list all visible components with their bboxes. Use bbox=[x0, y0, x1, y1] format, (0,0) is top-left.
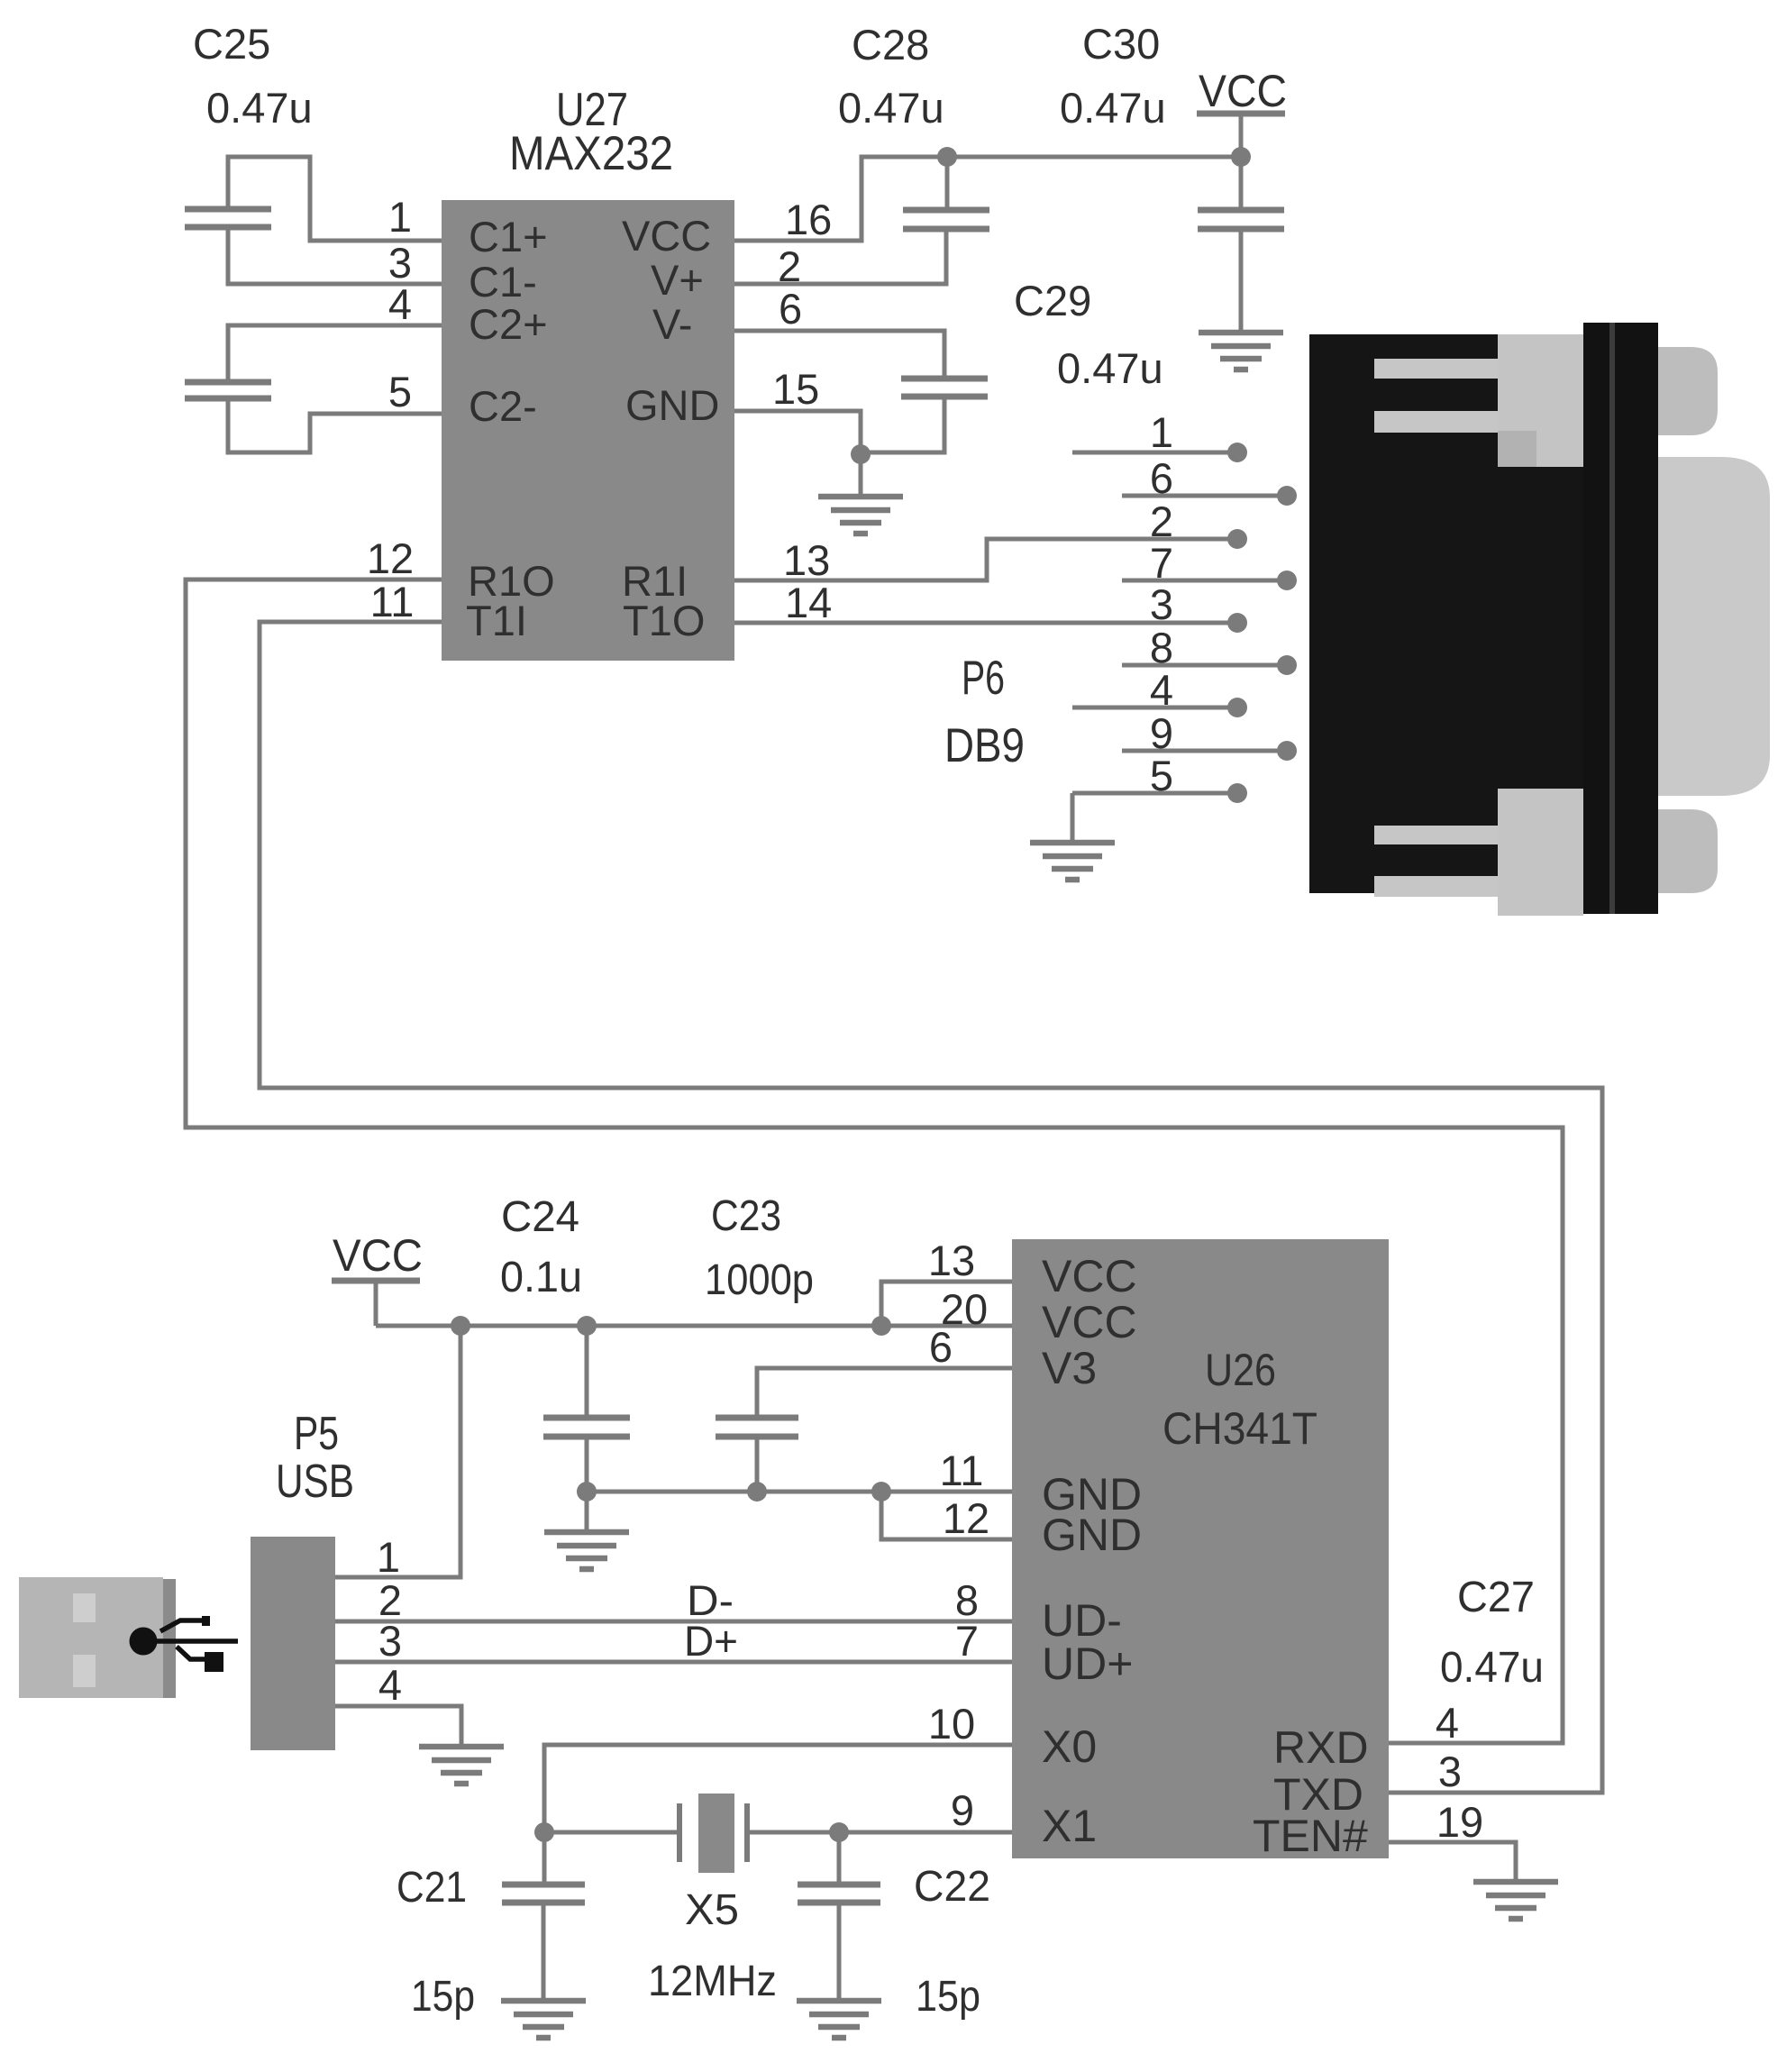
USB trident symbol bbox=[142, 1620, 238, 1659]
wire C28 bottom to U27 pin 2 bbox=[734, 229, 946, 284]
svg-text:15p: 15p bbox=[411, 1973, 475, 2021]
net T1I: U27 pin 11 to U26 TXD pin 3 bbox=[260, 622, 1602, 1793]
svg-text:VCC: VCC bbox=[1042, 1297, 1137, 1347]
svg-text:4: 4 bbox=[1150, 666, 1173, 714]
USB plug icon rear strip bbox=[163, 1579, 176, 1698]
svg-text:13: 13 bbox=[783, 536, 830, 584]
svg-text:T1I: T1I bbox=[466, 597, 527, 644]
IC U27 MAX232 body bbox=[442, 200, 734, 661]
wire rail to C24 top bbox=[585, 1326, 589, 1418]
svg-text:7: 7 bbox=[955, 1617, 979, 1665]
svg-text:C1-: C1- bbox=[469, 258, 537, 306]
svg-text:3: 3 bbox=[1150, 580, 1173, 628]
ground net wire to U26 pins 11 and 12 bbox=[587, 1490, 1012, 1494]
ground symbol under C22 bbox=[797, 2001, 881, 2038]
wire P5 pin 1 to VCC rail bbox=[335, 1326, 460, 1577]
node junction rail-pin13 branch bbox=[871, 1316, 891, 1336]
svg-text:C24: C24 bbox=[501, 1193, 579, 1241]
wire rail branch to U26 pin 13 bbox=[881, 1282, 1012, 1326]
power symbol VCC top bbox=[1197, 111, 1285, 117]
net D-: P5 pin 2 to U26 UD- pin 8 bbox=[335, 1620, 1012, 1624]
svg-text:13: 13 bbox=[928, 1237, 975, 1284]
USB plug icon contact 1 bbox=[73, 1593, 96, 1622]
node junction ground net branch bbox=[871, 1482, 891, 1502]
svg-text:V-: V- bbox=[652, 300, 692, 348]
wire U27 pin 14 to DB9 pin 3 bbox=[734, 621, 1237, 625]
USB plug icon contact 2 bbox=[73, 1655, 96, 1687]
svg-text:C27: C27 bbox=[1457, 1574, 1535, 1621]
svg-text:11: 11 bbox=[370, 578, 415, 625]
wire P5 pin 4 to ground bbox=[335, 1706, 461, 1745]
wire DB9 pin 5 to ground bbox=[1071, 793, 1075, 841]
node DB9 pin 4 solder dot bbox=[1227, 698, 1247, 717]
svg-text:12MHz: 12MHz bbox=[648, 1958, 777, 2005]
svg-text:C25: C25 bbox=[193, 20, 270, 68]
capacitor C28 symbol bbox=[903, 210, 989, 229]
DB9 connector drawing: bottom screw tab bbox=[1658, 809, 1718, 893]
svg-text:0.47u: 0.47u bbox=[838, 84, 944, 132]
svg-text:9: 9 bbox=[1150, 709, 1173, 757]
svg-text:X5: X5 bbox=[685, 1886, 739, 1934]
svg-text:USB: USB bbox=[276, 1456, 354, 1508]
wire U26 pin 10 X0 to crystal node bbox=[544, 1745, 1012, 1832]
ground symbol DB9 pin 5 bbox=[1030, 843, 1115, 880]
node DB9 pin 8 solder dot bbox=[1277, 655, 1297, 675]
wire C30 bottom to ground bbox=[1239, 229, 1244, 333]
node junction C23-ground net bbox=[747, 1482, 767, 1502]
svg-text:V3: V3 bbox=[1042, 1343, 1097, 1393]
wire U27 pin 6 to C29 top bbox=[734, 331, 944, 379]
svg-text:C2-: C2- bbox=[469, 382, 537, 430]
svg-text:X0: X0 bbox=[1042, 1721, 1097, 1772]
DB9 connector drawing: rear flange black strip bbox=[1583, 323, 1658, 914]
capacitor C29 symbol bbox=[901, 379, 988, 397]
wire C24 ground stem bbox=[585, 1492, 589, 1530]
DB9 connector drawing: upper pin bar 1 bbox=[1374, 359, 1500, 379]
ground symbol under C24 bbox=[544, 1532, 629, 1569]
node junction pin15-C29-ground bbox=[851, 444, 871, 464]
svg-text:VCC: VCC bbox=[622, 212, 711, 260]
DB9 connector drawing: top screw tab bbox=[1658, 347, 1718, 435]
wire DB9 pin 9 stub bbox=[1122, 749, 1287, 753]
svg-text:3: 3 bbox=[1438, 1748, 1462, 1795]
svg-text:D+: D+ bbox=[684, 1617, 738, 1665]
wire DB9 pin 1 stub bbox=[1072, 451, 1237, 455]
svg-text:0.47u: 0.47u bbox=[1057, 344, 1163, 392]
node junction X0-C21-crystal bbox=[534, 1822, 554, 1842]
svg-text:2: 2 bbox=[778, 242, 801, 290]
svg-text:VCC: VCC bbox=[1199, 66, 1287, 116]
svg-text:X1: X1 bbox=[1042, 1801, 1097, 1851]
VCC rail to U26 pin 20 bbox=[376, 1324, 1012, 1328]
svg-text:15p: 15p bbox=[916, 1973, 980, 2021]
svg-text:6: 6 bbox=[929, 1323, 953, 1371]
svg-text:C29: C29 bbox=[1014, 277, 1091, 324]
ground symbol P5 pin 4 bbox=[419, 1747, 504, 1784]
wire C23 bottom to ground net bbox=[755, 1437, 760, 1492]
wire crystal left segment bbox=[544, 1830, 679, 1835]
svg-text:T1O: T1O bbox=[623, 597, 705, 644]
DB9 connector drawing: main black shell body bbox=[1309, 334, 1583, 893]
power symbol VCC bottom bbox=[332, 1278, 420, 1284]
svg-text:4: 4 bbox=[378, 1661, 402, 1709]
node junction rail-C28 bbox=[937, 147, 957, 167]
node DB9 pin 3 solder dot bbox=[1227, 613, 1247, 633]
capacitor C30 symbol bbox=[1198, 210, 1284, 229]
svg-text:UD+: UD+ bbox=[1042, 1638, 1133, 1689]
DB9 connector drawing: lower insulator block bbox=[1498, 789, 1583, 916]
svg-text:0.1u: 0.1u bbox=[500, 1254, 582, 1301]
node DB9 pin 9 solder dot bbox=[1277, 741, 1297, 761]
wire DB9 pin 4 stub bbox=[1072, 706, 1237, 710]
node junction rail-C24 bbox=[577, 1316, 597, 1336]
svg-text:14: 14 bbox=[785, 579, 832, 626]
capacitor C24 symbol bbox=[543, 1418, 630, 1437]
net D+: P5 pin 3 to U26 UD+ pin 7 bbox=[335, 1660, 1012, 1665]
wire C25 top to U27 pin 1 bbox=[228, 157, 442, 241]
svg-text:16: 16 bbox=[785, 196, 832, 243]
capacitor C22 symbol bbox=[798, 1885, 880, 1903]
svg-text:RXD: RXD bbox=[1273, 1722, 1369, 1773]
USB plug icon body bbox=[19, 1577, 163, 1698]
wire C29 bottom to pin15 node bbox=[861, 397, 944, 452]
node DB9 pin 7 solder dot bbox=[1277, 570, 1297, 590]
svg-text:6: 6 bbox=[779, 285, 802, 333]
svg-text:C23: C23 bbox=[711, 1192, 781, 1240]
DB9 connector drawing: lower pin bar 1 bbox=[1374, 826, 1500, 844]
capacitor C26 symbol bbox=[185, 382, 271, 398]
node junction rail-C30 bbox=[1231, 147, 1251, 167]
svg-text:V+: V+ bbox=[651, 256, 704, 304]
svg-text:12: 12 bbox=[943, 1494, 989, 1542]
IC U26 CH341T body bbox=[1012, 1239, 1389, 1858]
crystal X5 symbol bbox=[698, 1794, 734, 1873]
wire DB9 pin 8 stub bbox=[1122, 663, 1287, 668]
wire C22 bottom to ground bbox=[837, 1903, 842, 1999]
svg-text:P6: P6 bbox=[962, 652, 1005, 705]
DB9 connector drawing: upper insulator block bbox=[1498, 334, 1583, 467]
svg-text:3: 3 bbox=[378, 1617, 402, 1665]
wire C21 bottom to ground bbox=[542, 1903, 546, 1999]
DB9 connector drawing: D-shell face bbox=[1658, 457, 1770, 796]
wire U27 pin 16 to VCC rail bbox=[734, 157, 1241, 241]
wire rail to C30 top bbox=[1239, 157, 1244, 210]
svg-text:4: 4 bbox=[388, 280, 412, 328]
svg-text:C28: C28 bbox=[852, 21, 929, 68]
svg-text:15: 15 bbox=[772, 365, 819, 413]
svg-text:10: 10 bbox=[928, 1700, 975, 1748]
node junction rail-P5 pin1 bbox=[451, 1316, 470, 1336]
svg-text:5: 5 bbox=[1150, 752, 1173, 799]
wire C24 bottom to ground node bbox=[585, 1437, 589, 1492]
svg-text:1: 1 bbox=[1150, 408, 1173, 456]
svg-text:C1+: C1+ bbox=[469, 213, 548, 260]
svg-text:MAX232: MAX232 bbox=[509, 127, 673, 180]
svg-text:1: 1 bbox=[377, 1533, 400, 1581]
svg-text:12: 12 bbox=[367, 534, 414, 582]
svg-text:0.47u: 0.47u bbox=[1440, 1644, 1544, 1692]
svg-text:DB9: DB9 bbox=[944, 719, 1025, 772]
svg-text:19: 19 bbox=[1436, 1798, 1483, 1846]
wire U26 pin 6 V3 to C23 top bbox=[757, 1368, 1012, 1418]
node junction X1-C22-crystal bbox=[829, 1822, 849, 1842]
wire U26 pin 9 X1 to crystal right bbox=[747, 1830, 1012, 1835]
node junction C24-ground net bbox=[577, 1482, 597, 1502]
svg-text:11: 11 bbox=[940, 1447, 984, 1494]
wire DB9 pin 5 stub bbox=[1072, 791, 1237, 796]
ground symbol TEN# bbox=[1473, 1882, 1558, 1919]
ground symbol under C30 bbox=[1199, 333, 1283, 370]
wire rail to C28 top bbox=[945, 157, 950, 210]
wire C26 bottom to U27 pin 5 bbox=[228, 398, 442, 452]
svg-text:8: 8 bbox=[1150, 624, 1173, 671]
node DB9 pin 5 solder dot bbox=[1227, 783, 1247, 803]
wire U27 pin 13 to DB9 pin 2 bbox=[734, 539, 1237, 580]
node DB9 pin 1 solder dot bbox=[1227, 443, 1247, 462]
svg-text:P5: P5 bbox=[294, 1408, 339, 1460]
capacitor C21 symbol bbox=[502, 1885, 585, 1903]
capacitor C23 symbol bbox=[716, 1418, 798, 1437]
svg-text:9: 9 bbox=[951, 1786, 974, 1834]
svg-text:VCC: VCC bbox=[1042, 1251, 1137, 1301]
ground symbol under C21 bbox=[501, 2001, 586, 2038]
svg-text:CH341T: CH341T bbox=[1162, 1403, 1317, 1454]
DB9 connector drawing: lower pin bar 2 bbox=[1374, 876, 1500, 897]
node DB9 pin 6 solder dot bbox=[1277, 486, 1297, 506]
svg-text:0.47u: 0.47u bbox=[206, 84, 313, 132]
svg-text:VCC: VCC bbox=[333, 1230, 423, 1281]
svg-text:1000p: 1000p bbox=[705, 1256, 814, 1304]
svg-text:1: 1 bbox=[388, 193, 412, 241]
svg-text:GND: GND bbox=[625, 381, 719, 429]
connector P5 body bbox=[251, 1537, 335, 1750]
svg-text:C2+: C2+ bbox=[469, 300, 548, 348]
wire DB9 pin 7 stub bbox=[1122, 579, 1287, 583]
svg-text:C30: C30 bbox=[1082, 20, 1160, 68]
svg-text:GND: GND bbox=[1042, 1510, 1142, 1560]
node DB9 pin 2 solder dot bbox=[1227, 529, 1247, 549]
wire C25 bottom to U27 pin 3 bbox=[228, 227, 442, 284]
svg-text:0.47u: 0.47u bbox=[1060, 84, 1166, 132]
svg-text:U26: U26 bbox=[1205, 1345, 1276, 1395]
wire node to C21 top bbox=[542, 1832, 547, 1885]
wire DB9 pin 6 stub bbox=[1122, 494, 1287, 498]
wire U26 TEN# pin 19 to ground bbox=[1389, 1842, 1516, 1880]
ground symbol pin15 net bbox=[818, 497, 903, 534]
svg-text:C22: C22 bbox=[914, 1863, 990, 1911]
DB9 connector drawing: upper pin bar 2 bbox=[1374, 411, 1500, 433]
capacitor C25 symbol bbox=[185, 209, 271, 227]
svg-text:TEN#: TEN# bbox=[1253, 1811, 1368, 1861]
wire node to C22 top bbox=[837, 1832, 842, 1885]
wire C26 top to U27 pin 4 bbox=[228, 325, 442, 382]
wire U27 pin 15 GND to node bbox=[734, 411, 861, 494]
svg-text:5: 5 bbox=[388, 368, 412, 415]
svg-text:4: 4 bbox=[1436, 1699, 1459, 1747]
svg-text:6: 6 bbox=[1150, 454, 1173, 502]
svg-text:C21: C21 bbox=[397, 1864, 467, 1912]
net R1O: U27 pin 12 to U26 RXD pin 4 bbox=[186, 580, 1563, 1743]
